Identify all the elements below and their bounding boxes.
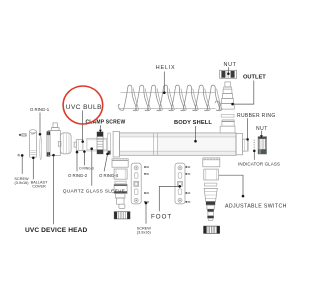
svg-text:O RING-1: O RING-1 (30, 107, 50, 112)
svg-text:INDICATOR GLASS: INDICATOR GLASS (238, 162, 280, 167)
svg-text:QUARTZ GLASS SLEEVE: QUARTZ GLASS SLEEVE (63, 189, 125, 195)
svg-text:BODY SHELL: BODY SHELL (174, 120, 212, 126)
svg-text:NUT: NUT (224, 62, 237, 68)
svg-text:UVC BULB: UVC BULB (66, 104, 102, 111)
svg-text:(3.9x16): (3.9x16) (15, 181, 30, 185)
svg-text:COVER: COVER (32, 184, 46, 188)
svg-text:O RING-2: O RING-2 (68, 173, 88, 178)
svg-text:OUTLET: OUTLET (243, 74, 266, 80)
svg-text:ADJUSTABLE SWITCH: ADJUSTABLE SWITCH (225, 204, 287, 210)
svg-text:UVC DEVICE HEAD: UVC DEVICE HEAD (25, 227, 87, 234)
svg-text:NUT: NUT (256, 126, 268, 132)
svg-text:RUBBER RING: RUBBER RING (237, 113, 276, 119)
svg-text:FOOT: FOOT (151, 214, 172, 221)
svg-text:O RING-4: O RING-4 (99, 173, 119, 178)
svg-text:(3.9x16): (3.9x16) (137, 231, 152, 235)
svg-text:HELIX: HELIX (156, 65, 176, 71)
svg-text:O RING-3: O RING-3 (79, 167, 94, 171)
